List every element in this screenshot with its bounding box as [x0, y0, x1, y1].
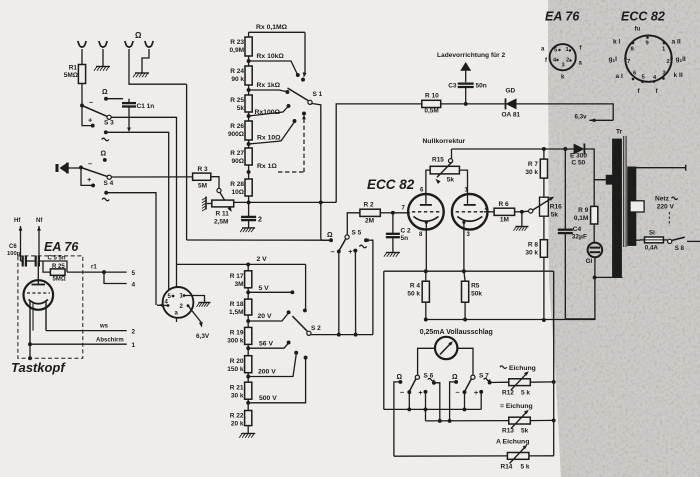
- svg-text:5k: 5k: [521, 428, 529, 435]
- wire probe output r1: [67, 265, 127, 275]
- label C5 5n: [48, 256, 66, 262]
- svg-text:R 22: R 22: [230, 413, 244, 420]
- wire R28 bottom: [248, 196, 250, 202]
- potentiometer R16 body: [540, 197, 549, 216]
- svg-text:5k: 5k: [551, 212, 559, 219]
- svg-text:R 4: R 4: [410, 283, 421, 290]
- wire S5 ac contact down: [366, 240, 373, 334]
- label R28 10: [230, 181, 244, 196]
- svg-text:2: 2: [132, 329, 136, 336]
- svg-text:Si: Si: [649, 230, 655, 237]
- potentiometer R13: [509, 410, 531, 429]
- switch S6 wiper: [407, 379, 415, 394]
- label R6 1M: [499, 201, 510, 224]
- svg-text:2 V: 2 V: [257, 256, 268, 263]
- label R1 5M: [64, 65, 78, 80]
- label Tastkopf: [11, 360, 66, 375]
- wire R6 to R16 wiper node: [515, 210, 529, 214]
- svg-text:5k: 5k: [447, 177, 455, 184]
- svg-text:90 k: 90 k: [231, 76, 244, 83]
- svg-text:Rx 10kΩ: Rx 10kΩ: [257, 53, 285, 60]
- resistor R20: [245, 356, 252, 373]
- triode II envelope: [452, 194, 488, 230]
- ground below R6 node: [513, 212, 528, 231]
- svg-text:ECC 82: ECC 82: [621, 10, 665, 24]
- svg-text:100p: 100p: [7, 251, 21, 257]
- wire R15 right to triode II anode: [459, 170, 467, 204]
- resistor R21: [245, 382, 252, 399]
- switch S5 plus contact: [348, 249, 357, 256]
- node R24-R25: [247, 85, 251, 95]
- wire cathode load bottom bus: [424, 318, 595, 322]
- svg-text:S 2: S 2: [311, 325, 321, 332]
- svg-text:150 k: 150 k: [227, 366, 244, 373]
- label R25 5k: [230, 97, 244, 112]
- label S7 minus: [456, 388, 460, 397]
- svg-text:R15: R15: [432, 157, 444, 164]
- transformer left winding: [613, 139, 622, 277]
- wire R12 right: [530, 381, 553, 383]
- label OA 81: [502, 112, 521, 119]
- svg-text:C6: C6: [9, 244, 17, 250]
- label EA 76 top: [545, 10, 580, 24]
- capacitor C3: [448, 83, 487, 90]
- wire S5 omega row: [187, 239, 331, 241]
- svg-text:R5: R5: [471, 283, 480, 290]
- EA76 probe cathode: [29, 300, 49, 304]
- terminal 5: [132, 270, 136, 277]
- transformer right winding: [628, 167, 636, 246]
- switch S4 omega contact: [101, 151, 107, 162]
- resistor R1: [78, 65, 85, 84]
- svg-text:220 V: 220 V: [657, 204, 675, 211]
- svg-text:R14: R14: [501, 464, 513, 471]
- svg-text:R1: R1: [69, 65, 78, 72]
- triode II grid dashes: [456, 211, 484, 213]
- input fork jack 3: [125, 41, 133, 47]
- svg-text:C4: C4: [573, 226, 582, 233]
- switch S2 wiper: [292, 316, 321, 335]
- svg-text:1,5M: 1,5M: [229, 309, 243, 316]
- svg-text:R 25: R 25: [52, 264, 65, 270]
- svg-text:1M: 1M: [500, 217, 509, 224]
- svg-text:R 21: R 21: [230, 385, 244, 392]
- svg-text:+: +: [348, 249, 352, 256]
- wire S5 plus contact down: [354, 251, 356, 335]
- svg-text:R 11: R 11: [216, 211, 230, 218]
- switch S4 plus contact: [87, 175, 95, 187]
- potentiometer R14: [507, 445, 529, 464]
- capacitor C1: [122, 99, 136, 107]
- fuse Si: [640, 237, 663, 243]
- triode II plate: [464, 204, 476, 206]
- switch S4 ac contact: [102, 191, 109, 201]
- svg-text:S 3: S 3: [104, 120, 114, 127]
- wire S4 omega stub: [104, 159, 106, 161]
- svg-text:–: –: [331, 247, 335, 256]
- heater socket stub: [176, 318, 178, 322]
- svg-text:Ω: Ω: [397, 374, 403, 381]
- potentiometer R15 wiper: [449, 149, 453, 163]
- switch S3 plus contact: [88, 116, 95, 128]
- resistor R9: [591, 206, 598, 224]
- wire Gl bottom down: [593, 257, 597, 320]
- svg-text:30 k: 30 k: [525, 250, 538, 257]
- switch S5 pivot: [345, 230, 362, 240]
- resistor R10: [422, 100, 441, 107]
- svg-text:S 5: S 5: [352, 230, 362, 237]
- svg-text:R16: R16: [550, 204, 562, 211]
- gray scan shadow band right side: [548, 0, 700, 477]
- node R21-R22 500V tap: [246, 356, 307, 411]
- coax plug symbol: [57, 163, 68, 174]
- resistor R25: [245, 95, 252, 112]
- wire S3 ac contact right and down: [106, 132, 169, 290]
- svg-text:R 7: R 7: [528, 161, 539, 168]
- svg-text:R 10: R 10: [425, 93, 439, 100]
- svg-text:C 50: C 50: [572, 160, 586, 167]
- label ECC 82 top: [621, 10, 665, 24]
- svg-text:Nullkorrektur: Nullkorrektur: [423, 138, 466, 145]
- EA76 socket circle: [550, 44, 576, 70]
- label ECC 82 center: [367, 177, 415, 192]
- svg-text:Eichung: Eichung: [509, 365, 536, 372]
- ECC82 socket circle: [625, 35, 671, 81]
- wire bottom row: [394, 455, 508, 457]
- resistor R8: [540, 240, 547, 258]
- svg-text:R 19: R 19: [230, 330, 244, 337]
- wire pin1 to ground: [184, 296, 211, 307]
- label R7 30k: [525, 161, 538, 176]
- switch S7 omega contact: [452, 374, 458, 384]
- wire C6 to C5: [21, 260, 36, 262]
- wire fork1 to R1: [81, 49, 83, 65]
- svg-text:R13: R13: [502, 428, 514, 435]
- svg-text:50 k: 50 k: [407, 291, 420, 298]
- wire R10 to diode GD: [441, 103, 506, 105]
- ECC82 socket outside labels: [609, 26, 686, 96]
- svg-text:Ω: Ω: [452, 374, 458, 381]
- input fork jack 4: [145, 41, 153, 47]
- Tastkopf dashed box: [18, 256, 83, 358]
- label E 300 C 50: [570, 153, 587, 167]
- wire Rx 10 tap: [249, 119, 297, 144]
- label Si 0,4A: [645, 230, 659, 252]
- wire R3 to R11 wiper: [211, 177, 221, 193]
- node R18-R19 20V tap: [246, 310, 290, 327]
- label S4 minus: [88, 159, 92, 168]
- resistor R19: [245, 327, 252, 344]
- resistor R7: [540, 159, 547, 178]
- wire S3 plus loop: [82, 106, 93, 126]
- label R12 5k: [502, 390, 530, 397]
- ECC82 socket pins: [624, 36, 673, 83]
- label S5 minus: [331, 247, 335, 256]
- heater socket pins: [165, 294, 190, 317]
- svg-text:EA 76: EA 76: [44, 240, 79, 254]
- switch S6 pivot: [415, 373, 433, 380]
- svg-text:Rx 1Ω: Rx 1Ω: [257, 163, 277, 170]
- label R13 5k: [502, 428, 529, 435]
- svg-text:S 1: S 1: [313, 91, 323, 98]
- svg-text:R 8: R 8: [528, 242, 539, 249]
- node R20-R21 200V tap: [246, 351, 298, 382]
- switch S6 plus contact: [419, 390, 428, 397]
- svg-text:EA 76: EA 76: [545, 10, 580, 24]
- wire triode II cathode down: [463, 222, 465, 271]
- resistor R17: [245, 264, 252, 287]
- wire triode II grid to R6: [484, 211, 494, 213]
- svg-text:Rx 0,1MΩ: Rx 0,1MΩ: [256, 24, 288, 31]
- ground under fork2: [94, 67, 110, 71]
- svg-text:5 k: 5 k: [521, 390, 530, 397]
- label Gl: [586, 258, 593, 265]
- wire fork3 down and right to vertical bus: [129, 49, 187, 84]
- svg-text:R 2: R 2: [364, 202, 375, 209]
- potentiometer R12: [509, 371, 531, 390]
- svg-text:Ω: Ω: [102, 89, 108, 96]
- label R25 5M probe: [52, 264, 66, 283]
- resistor R4: [422, 271, 429, 302]
- svg-text:C1 1n: C1 1n: [137, 103, 155, 110]
- wire S8 to mains: [687, 240, 700, 242]
- wire chain bottom bus: [234, 200, 337, 204]
- wire bus up to R10 wire: [336, 104, 422, 202]
- wire S1 to vertical bus: [312, 104, 323, 239]
- potentiometer R16 arrow: [533, 197, 554, 210]
- node R27-R28: [247, 165, 251, 179]
- switch S1 wiper: [288, 88, 323, 104]
- svg-text:R 26: R 26: [230, 123, 244, 130]
- label Nf: [36, 218, 43, 261]
- label R3 5M: [198, 166, 209, 190]
- wire vertical bus fork3 net down: [186, 84, 188, 240]
- wire R22 to ground: [247, 426, 249, 434]
- svg-text:R 20: R 20: [230, 358, 244, 365]
- svg-text:5MΩ: 5MΩ: [64, 72, 78, 79]
- svg-text:k II: k II: [674, 72, 683, 79]
- label R15 5k: [432, 157, 454, 184]
- label R24 90k: [230, 68, 244, 83]
- svg-text:a I: a I: [616, 73, 623, 80]
- wire S7 wiper down: [463, 392, 467, 411]
- diode E300 C50: [574, 144, 585, 155]
- ground below capacitor 2: [240, 220, 255, 232]
- wire C3 to OA81 wire: [464, 87, 468, 106]
- svg-text:50k: 50k: [471, 291, 482, 298]
- svg-text:5: 5: [132, 270, 136, 277]
- switch S3 ac contact: [102, 130, 109, 140]
- svg-text:R 3: R 3: [198, 166, 209, 173]
- label = Eichung: [500, 403, 533, 410]
- label Omega top: [135, 31, 142, 40]
- heater 6,3V lead: [188, 306, 210, 340]
- wire right winding top to kI: [636, 165, 686, 171]
- pin labels triode II: [465, 188, 489, 239]
- meter M: [435, 337, 457, 359]
- svg-text:Gl: Gl: [586, 258, 593, 265]
- chassis bar left of R11: [202, 197, 212, 212]
- svg-text:2: 2: [566, 58, 569, 64]
- potentiometer R11 body: [212, 200, 234, 207]
- label R20 150k: [227, 358, 244, 373]
- label R14 5k: [501, 464, 530, 471]
- wire grid node to triode I grid: [393, 212, 410, 214]
- wire H1 row: [384, 408, 481, 410]
- svg-text:Rx 1kΩ: Rx 1kΩ: [257, 82, 281, 89]
- wire S1 contact 0,1M down: [301, 32, 306, 81]
- svg-text:C 2: C 2: [401, 228, 412, 235]
- wire S3 omega contact to C1: [106, 98, 123, 100]
- svg-text:32μF: 32μF: [572, 234, 587, 241]
- wire R4 bottom: [425, 302, 427, 319]
- wire R2 left to S5 pivot: [347, 213, 360, 235]
- svg-text:GD: GD: [506, 88, 516, 95]
- switch S5 wiper arm: [337, 239, 346, 254]
- svg-text:50n: 50n: [476, 83, 487, 90]
- svg-text:5 k: 5 k: [521, 464, 530, 471]
- svg-text:0,5M: 0,5M: [424, 108, 438, 115]
- wire S4 ac contact right and down to socket: [106, 193, 156, 305]
- svg-text:k I: k I: [613, 39, 620, 46]
- ground below R22: [239, 434, 255, 438]
- label R18 1,5M: [229, 301, 244, 316]
- resistor R23: [245, 32, 252, 56]
- label R2 2M: [364, 202, 375, 225]
- switch S7 plus contact: [474, 390, 483, 397]
- svg-text:C3: C3: [448, 83, 457, 90]
- wire probe terminal 4: [104, 272, 136, 288]
- svg-text:a II: a II: [672, 39, 681, 46]
- wire S4 wiper to R3: [111, 176, 192, 178]
- svg-text:= Eichung: = Eichung: [500, 403, 533, 410]
- svg-text:5MΩ: 5MΩ: [53, 277, 66, 283]
- svg-text:Ω: Ω: [135, 31, 142, 40]
- svg-text:S 8: S 8: [675, 245, 685, 252]
- EA76 probe grid: [27, 292, 50, 294]
- wire S6 wiper down: [407, 392, 411, 411]
- wire cathode bus left down: [383, 271, 385, 409]
- label Ladevorrichtung: [437, 52, 505, 59]
- svg-text:S 4: S 4: [104, 180, 114, 187]
- label EA 76 probe: [44, 240, 79, 254]
- svg-text:fu: fu: [635, 26, 641, 33]
- wire Gl node to winding bottom: [595, 276, 623, 278]
- svg-text:Hf: Hf: [14, 218, 21, 224]
- triode II cathode: [457, 217, 482, 224]
- triode I cathode: [414, 217, 439, 224]
- ground under fork4: [133, 73, 149, 77]
- svg-text:Ω: Ω: [327, 232, 333, 239]
- switch S4 wiper: [81, 168, 114, 188]
- label R19 300k: [227, 330, 244, 345]
- potentiometer R15 arrow: [435, 162, 452, 184]
- svg-text:10Ω: 10Ω: [232, 189, 244, 196]
- label S6 minus: [400, 388, 404, 397]
- svg-text:Tr: Tr: [616, 129, 623, 136]
- switch S5 omega contact: [327, 232, 333, 242]
- svg-text:R 18: R 18: [230, 301, 244, 308]
- svg-text:–: –: [88, 159, 92, 168]
- wire S7 omega down: [448, 382, 456, 423]
- resistor R28: [245, 179, 252, 196]
- wire winding to fuse: [632, 240, 640, 245]
- wire S5 minus contact down: [338, 251, 340, 334]
- label GD: [506, 88, 516, 95]
- wire R9 to glow lamp: [593, 224, 595, 242]
- wire fork4 to ground: [142, 49, 149, 73]
- label R23 0,9M: [230, 39, 245, 54]
- svg-text:–: –: [456, 388, 460, 397]
- switch S7 pivot: [471, 373, 489, 380]
- wire right edge bus: [552, 271, 556, 456]
- svg-text:2M: 2M: [365, 218, 374, 225]
- svg-text:–: –: [89, 98, 93, 107]
- svg-text:2: 2: [667, 59, 670, 65]
- wire probe terminal 2: [46, 324, 136, 336]
- svg-text:R 9: R 9: [578, 207, 589, 214]
- switch S6 ac contact: [428, 378, 436, 384]
- svg-text:900Ω: 900Ω: [228, 131, 244, 138]
- wire Rx 1 tap dashed: [257, 112, 306, 172]
- switch S3 omega contact: [102, 89, 108, 101]
- svg-text:ECC 82: ECC 82: [367, 177, 415, 192]
- glow lamp Gl: [588, 243, 603, 258]
- wire S3 wiper output right and down: [111, 117, 177, 287]
- svg-text:500 V: 500 V: [259, 395, 277, 402]
- wire Rx 10k tap: [249, 53, 300, 77]
- triode I plate: [420, 204, 432, 206]
- transformer Tr label: [616, 129, 623, 136]
- node R19-R20 56V tap: [246, 341, 290, 356]
- resistor R3: [193, 173, 211, 180]
- svg-text:Abschirm: Abschirm: [96, 338, 124, 344]
- wire R11 right to chain bottom: [233, 202, 235, 203]
- label R5 50k: [471, 283, 482, 298]
- svg-text:5 V: 5 V: [259, 285, 270, 292]
- label C1 1n: [137, 103, 155, 110]
- label R22 20k: [230, 413, 244, 428]
- wire diode to transformer tap: [584, 149, 594, 206]
- label R9 0,1M: [574, 207, 589, 222]
- wire Rx 1k tap: [249, 82, 290, 94]
- pin labels triode I: [402, 188, 425, 239]
- node R26-R27: [247, 140, 251, 148]
- wire OA81 to transformer heater: [517, 104, 614, 120]
- svg-text:–: –: [400, 388, 404, 397]
- wire charging arrow: [460, 62, 471, 82]
- wire 2V contact down: [303, 264, 307, 312]
- svg-text:30 k: 30 k: [231, 393, 244, 400]
- label S3 minus: [89, 98, 93, 107]
- svg-text:Tastkopf: Tastkopf: [11, 360, 66, 375]
- wire C1 bottom to S3 ac wire: [127, 107, 131, 133]
- label R16 5k: [550, 204, 562, 219]
- svg-text:ws: ws: [99, 324, 109, 330]
- label Netz 220V: [655, 196, 678, 211]
- node R23-R24: [247, 56, 251, 66]
- svg-text:7: 7: [627, 59, 630, 65]
- svg-text:0,25mA Vollausschlag: 0,25mA Vollausschlag: [420, 329, 493, 336]
- wire shield to box edge: [28, 344, 32, 360]
- wire pin4 lead: [157, 303, 168, 307]
- capacitor 2 below chain: [241, 202, 262, 223]
- svg-text:200 V: 200 V: [258, 369, 276, 376]
- svg-text:r1: r1: [91, 265, 97, 271]
- wire plug to S4 pivot: [66, 166, 83, 170]
- label R21 30k: [230, 385, 244, 400]
- transformer core lines: [624, 136, 626, 247]
